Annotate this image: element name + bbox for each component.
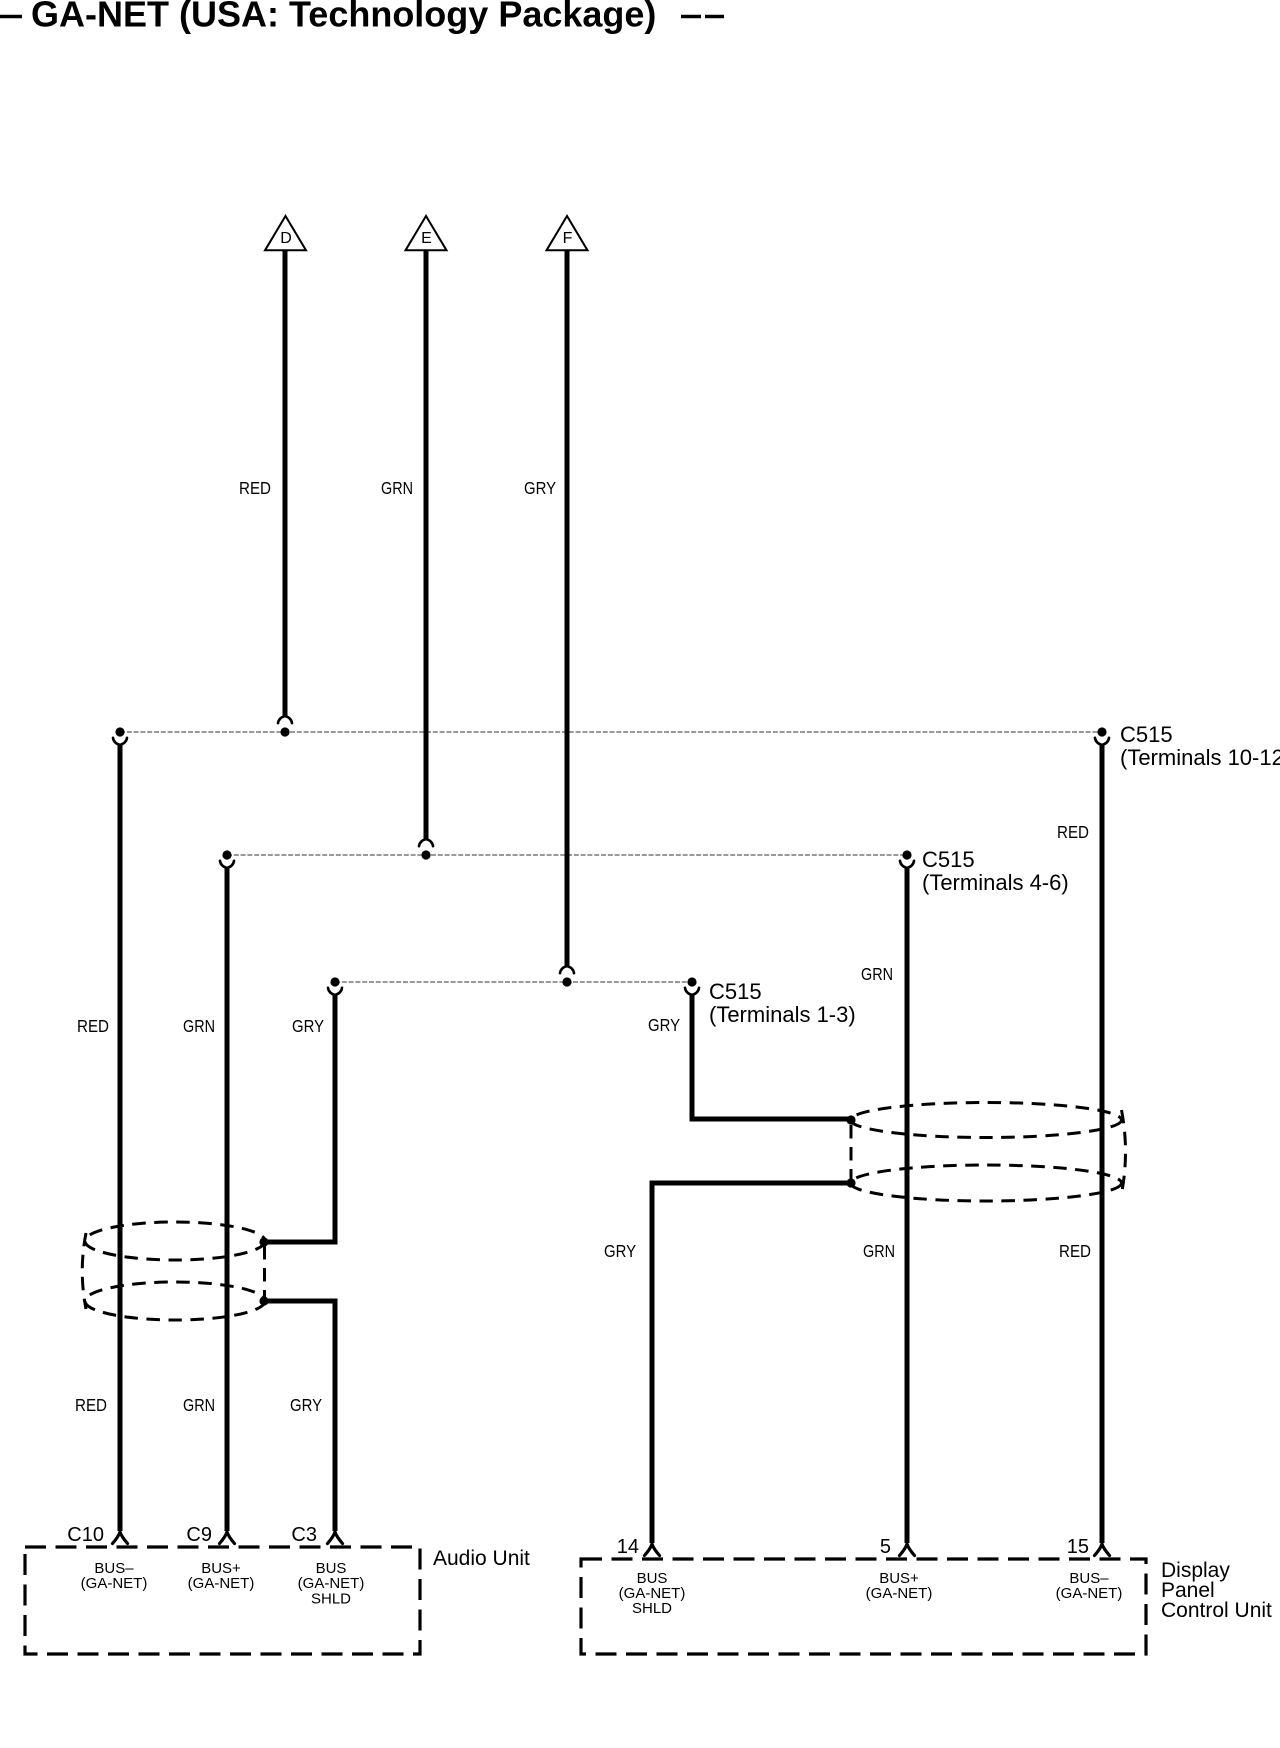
svg-text:(GA-NET): (GA-NET): [866, 1585, 933, 1602]
svg-text:(Terminals 1-3): (Terminals 1-3): [709, 1002, 856, 1027]
svg-text:RED: RED: [1057, 822, 1089, 842]
svg-text:RED: RED: [75, 1395, 107, 1415]
svg-text:GRY: GRY: [290, 1395, 322, 1415]
svg-text:(GA-NET): (GA-NET): [81, 1575, 148, 1592]
svg-text:(GA-NET): (GA-NET): [188, 1575, 255, 1592]
svg-text:15: 15: [1067, 1536, 1089, 1558]
svg-text:GRN: GRN: [183, 1395, 215, 1415]
svg-text:SHLD: SHLD: [632, 1600, 672, 1617]
svg-text:C9: C9: [186, 1524, 212, 1546]
svg-text:D: D: [280, 230, 292, 247]
svg-text:SHLD: SHLD: [311, 1591, 351, 1608]
svg-text:C10: C10: [67, 1524, 104, 1546]
svg-text:RED: RED: [1059, 1241, 1091, 1261]
svg-text:(GA-NET): (GA-NET): [1056, 1585, 1123, 1602]
svg-text:RED: RED: [77, 1016, 109, 1036]
svg-text:Control Unit: Control Unit: [1161, 1599, 1272, 1622]
svg-text:RED: RED: [239, 478, 271, 498]
svg-text:GRY: GRY: [648, 1015, 680, 1035]
svg-text:E: E: [421, 230, 432, 247]
svg-text:GRY: GRY: [604, 1241, 636, 1261]
svg-text:GRY: GRY: [292, 1016, 324, 1036]
svg-text:GRN: GRN: [381, 478, 413, 498]
svg-text:5: 5: [880, 1536, 891, 1558]
svg-text:GRY: GRY: [524, 478, 556, 498]
svg-text:14: 14: [617, 1536, 639, 1558]
svg-text:F: F: [563, 230, 573, 247]
svg-text:GRN: GRN: [863, 1241, 895, 1261]
svg-text:C3: C3: [291, 1524, 317, 1546]
svg-text:(GA-NET): (GA-NET): [298, 1575, 365, 1592]
svg-text:C515: C515: [922, 847, 975, 872]
svg-text:C515: C515: [1120, 722, 1173, 747]
svg-text:C515: C515: [709, 979, 762, 1004]
svg-text:(Terminals 10-12): (Terminals 10-12): [1120, 745, 1280, 770]
svg-text:Audio Unit: Audio Unit: [433, 1547, 530, 1570]
svg-text:GRN: GRN: [861, 964, 893, 984]
svg-text:GA-NET (USA: Technology Packag: GA-NET (USA: Technology Package): [31, 0, 656, 35]
svg-text:GRN: GRN: [183, 1016, 215, 1036]
svg-text:(Terminals 4-6): (Terminals 4-6): [922, 870, 1069, 895]
